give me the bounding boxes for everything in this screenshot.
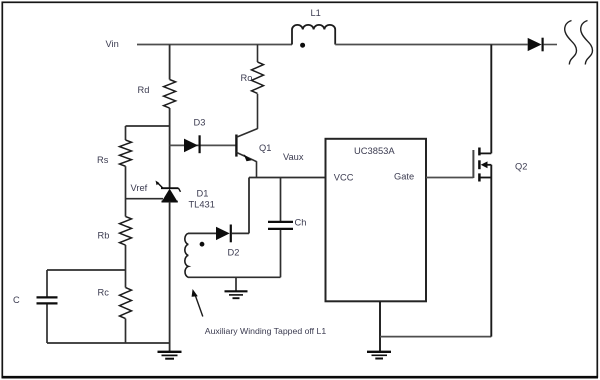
- wire main left vertical (middle): [169, 108, 171, 188]
- svg-text:Vref: Vref: [131, 183, 148, 193]
- svg-text:Gate: Gate: [394, 172, 414, 182]
- wire Rc to bottom: [125, 319, 127, 343]
- diode D2: [216, 225, 249, 243]
- wire Rs top horizontal: [126, 125, 170, 127]
- wire bottom horizontal left: [47, 342, 170, 344]
- svg-text:Vin: Vin: [106, 39, 119, 49]
- ground IC: [367, 352, 391, 359]
- wire source return horizontal: [380, 336, 491, 338]
- capacitor C: [37, 270, 58, 343]
- wire main left vertical (lower): [169, 202, 171, 352]
- resistor Rd: [164, 80, 176, 109]
- wire D2 anode horizontal: [188, 232, 216, 234]
- wire Q2 source vertical: [490, 165, 492, 337]
- wire junction to C: [47, 269, 126, 271]
- svg-text:Auxiliary Winding Tapped off: Auxiliary Winding Tapped off L1: [205, 326, 327, 336]
- resistor Rc: [120, 288, 132, 319]
- annotation arrow: [192, 289, 203, 317]
- wire ground stub D2: [235, 277, 237, 291]
- squiggle break marks: [565, 21, 593, 65]
- svg-text:Q1: Q1: [259, 143, 271, 153]
- IC U1 UC3853A box: [326, 139, 427, 301]
- svg-text:Vaux: Vaux: [283, 152, 304, 162]
- diode D3: [184, 135, 200, 153]
- ground main: [158, 352, 182, 359]
- winding auxiliary (tapped off L1): [185, 233, 188, 277]
- wire IC ground pin: [379, 301, 381, 351]
- wire Rs to Rb: [125, 166, 127, 216]
- svg-text:TL431: TL431: [189, 200, 215, 210]
- svg-text:Ro: Ro: [241, 73, 253, 83]
- inductor L1: [292, 25, 335, 45]
- svg-text:D3: D3: [194, 118, 206, 128]
- wire Vaux down to D2: [248, 178, 250, 234]
- wire Rs branch upper: [125, 126, 127, 140]
- diode output (unlabeled): [528, 38, 557, 52]
- svg-text:Rc: Rc: [98, 288, 110, 298]
- wire Ro top stub: [257, 45, 259, 63]
- wire Vaux node horizontal: [249, 177, 326, 179]
- capacitor Ch: [268, 178, 293, 278]
- wire Gate pin to Q2: [426, 177, 473, 179]
- wire top rail right: [335, 44, 528, 46]
- wire main left vertical (upper): [169, 45, 171, 80]
- transistor Q1: [236, 129, 257, 162]
- ground D2: [225, 291, 248, 298]
- wire Vref horizontal: [126, 198, 164, 200]
- wire collector vertical: [257, 94, 259, 129]
- wire emitter vertical: [256, 161, 258, 177]
- svg-text:D1: D1: [197, 188, 209, 198]
- svg-text:Q2: Q2: [515, 162, 527, 172]
- svg-text:VCC: VCC: [334, 172, 354, 182]
- wire Rb to Rc: [125, 245, 127, 288]
- MOSFET Q2: [473, 148, 491, 182]
- svg-text:Rd: Rd: [138, 85, 150, 95]
- resistor Rs: [120, 140, 132, 166]
- polarity dot winding: [200, 242, 205, 247]
- resistor Rb: [120, 217, 132, 246]
- svg-text:C: C: [13, 295, 20, 305]
- shunt regulator D1 TL431: [156, 181, 181, 202]
- svg-text:Ch: Ch: [295, 217, 307, 227]
- resistor Ro: [252, 62, 264, 93]
- svg-text:L1: L1: [311, 8, 321, 18]
- svg-text:D2: D2: [228, 248, 240, 258]
- wire Q2 drain vertical: [490, 45, 492, 154]
- svg-text:UC3853A: UC3853A: [354, 145, 395, 156]
- svg-text:Rs: Rs: [97, 155, 109, 165]
- svg-text:Rb: Rb: [98, 231, 110, 241]
- wire winding bottom horizontal: [188, 276, 281, 278]
- wire Vin top rail left: [137, 44, 292, 46]
- polarity dot L1: [300, 43, 305, 48]
- wire D3 horizontal: [170, 144, 236, 146]
